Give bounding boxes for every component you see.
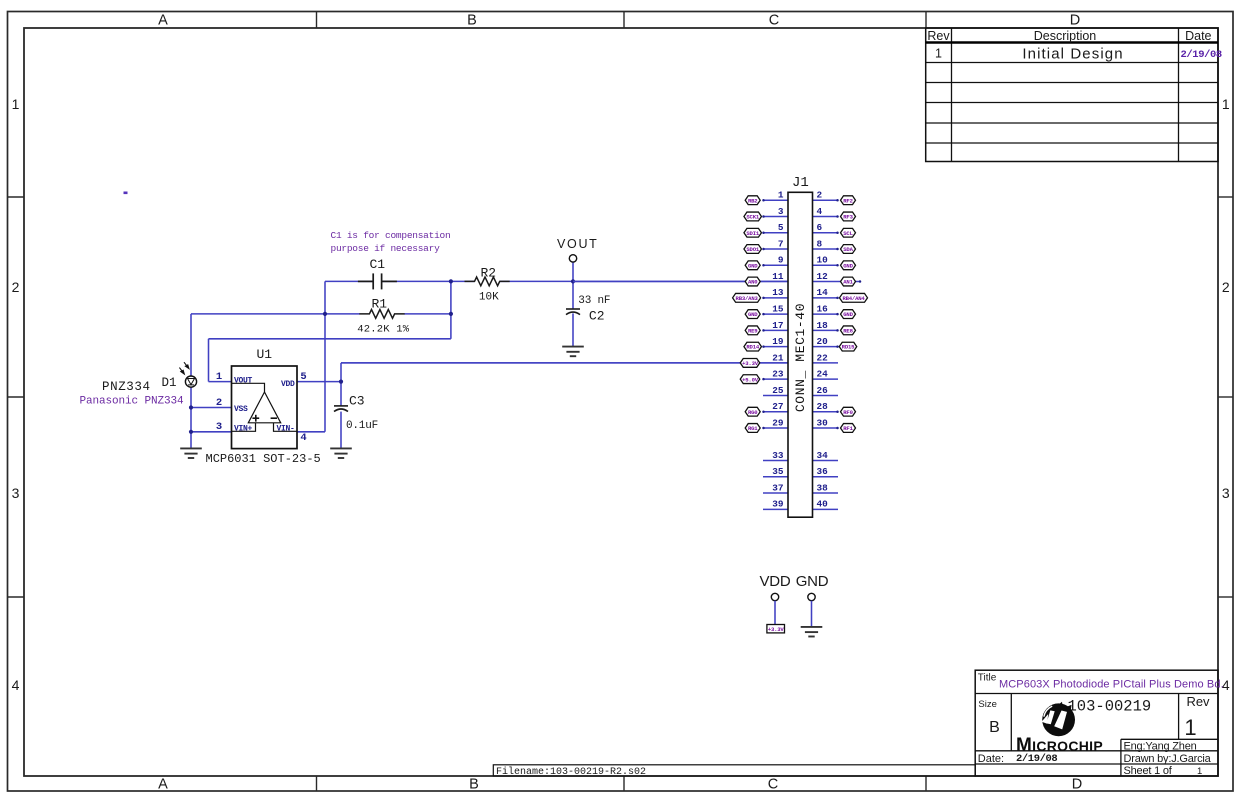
svg-text:0.1uF: 0.1uF [346, 420, 378, 432]
capacitor C2 [566, 309, 580, 315]
svg-text:21: 21 [772, 352, 784, 363]
svg-text:35: 35 [772, 466, 784, 477]
svg-text:A: A [158, 777, 168, 793]
bottom margin column ticks [316, 776, 318, 791]
wire vertical VIN- net x=325 [324, 281, 326, 431]
svg-text:R1: R1 [372, 297, 388, 312]
svg-text:15: 15 [772, 303, 784, 314]
wire J1 pin 16 stub [813, 313, 839, 315]
svg-text:Description: Description [1034, 29, 1097, 43]
svg-text:B: B [467, 13, 477, 29]
svg-text:RB2: RB2 [748, 197, 758, 204]
svg-text:VSS: VSS [234, 405, 248, 414]
svg-text:24: 24 [817, 369, 829, 380]
svg-text:+3.3V: +3.3V [742, 360, 759, 367]
svg-text:2: 2 [817, 190, 823, 201]
svg-text:RG1: RG1 [748, 425, 758, 432]
net label RE9 (J1 pin 17) [745, 326, 760, 335]
filename box [493, 765, 975, 776]
connector J1 body [788, 192, 813, 517]
svg-text:13: 13 [772, 287, 784, 298]
net label GND (J1 pin 10) [841, 261, 856, 270]
GND terminal circle [808, 593, 815, 600]
svg-text:103-00219: 103-00219 [1068, 698, 1152, 716]
resistor R1 [359, 310, 404, 319]
endpoint dot J1 pin 2 [836, 199, 839, 202]
ground under D1 [180, 448, 202, 458]
endpoint dot J1 pin 29 [762, 427, 765, 430]
wire J1 pin 17 stub [763, 329, 788, 331]
wire J1 pin 21 stub [341, 362, 788, 364]
junction dot D1/VIN+ [189, 430, 193, 434]
wire J1 pin 28 stub [813, 411, 839, 413]
junction dot R1 right [449, 312, 453, 316]
wire J1 pin 24 stub [813, 378, 839, 380]
net label +5.0V (J1 pin 23) [740, 375, 760, 384]
endpoint dot J1 pin 10 [836, 264, 839, 267]
ground under C2 [562, 347, 584, 357]
svg-text:33: 33 [772, 450, 784, 461]
wire J1 pin 1 stub [763, 199, 788, 201]
endpoint dot J1 pin 16 [836, 313, 839, 316]
svg-text:PNZ334: PNZ334 [102, 380, 151, 394]
svg-text:6: 6 [817, 222, 823, 233]
net label GND (J1 pin 9) [745, 261, 760, 270]
net label RE8 (J1 pin 18) [841, 326, 856, 335]
svg-text:27: 27 [772, 401, 783, 412]
endpoint dot J1 pin 3 [762, 215, 765, 218]
wire J1 pin 39 stub [763, 508, 788, 510]
svg-text:RF1: RF1 [843, 425, 853, 432]
VDD wire [774, 601, 776, 625]
svg-text:39: 39 [772, 499, 784, 510]
svg-text:12: 12 [817, 271, 829, 282]
wire down to U1 pin 1 [208, 339, 210, 382]
svg-text:3: 3 [1222, 485, 1230, 501]
svg-text:U1: U1 [257, 347, 273, 362]
wire J1 pin 2 stub [813, 199, 839, 201]
wire J1 pin 6 stub [813, 232, 839, 234]
wire VOUT feedback horizontal y=338.8 [209, 338, 451, 340]
svg-text:C: C [769, 13, 779, 29]
svg-text:Rev: Rev [1186, 694, 1210, 709]
endpoint dot J1 pin 6 [836, 231, 839, 234]
svg-text:CONN_ MEC1-40: CONN_ MEC1-40 [793, 303, 808, 412]
net label RF0 (J1 pin 28) [841, 407, 856, 416]
svg-text:10K: 10K [479, 291, 499, 303]
svg-text:MCP6031 SOT-23-5: MCP6031 SOT-23-5 [206, 452, 321, 466]
svg-text:16: 16 [817, 303, 829, 314]
top margin column ticks [316, 12, 318, 29]
junction dot C1/R2 node [449, 279, 453, 283]
endpoint dot J1 pin 1 [762, 199, 765, 202]
net label RD15 (J1 pin 20) [839, 342, 857, 351]
title block title row rule [975, 693, 1218, 695]
svg-text:B: B [469, 777, 479, 793]
svg-text:Rev: Rev [927, 29, 950, 43]
svg-text:AN1: AN1 [843, 279, 853, 286]
wire D1 top to feedback row [190, 314, 192, 377]
revision table row rules [926, 62, 1218, 64]
svg-text:26: 26 [817, 385, 829, 396]
svg-text:RF2: RF2 [843, 197, 853, 204]
svg-text:1: 1 [216, 371, 222, 383]
svg-text:+3.3V: +3.3V [768, 626, 785, 633]
op-amp U1 internal triangle and wiring [232, 383, 298, 431]
op-amp U1 box [232, 366, 298, 449]
endpoint dot J1 pin 13 [762, 297, 765, 300]
wire J1 pin 10 stub [813, 264, 839, 266]
svg-text:10: 10 [817, 255, 829, 266]
wire J1 pin 4 stub [813, 215, 839, 217]
wire feedback right vertical x=450.9 [450, 281, 452, 338]
svg-text:36: 36 [817, 466, 829, 477]
wire R2 to J1 pin 11 (VOUT net) [500, 280, 788, 282]
wire C1 row y=281 left part [325, 280, 373, 282]
svg-text:14: 14 [817, 287, 829, 298]
revision table frame [926, 28, 1218, 162]
title block frame [975, 670, 1218, 776]
junction dot R1 left [323, 312, 327, 316]
VDD +3.3V power box [767, 625, 785, 633]
endpoint dot J1 pin 20 [836, 345, 839, 348]
VDD terminal circle [771, 593, 778, 600]
svg-text:C: C [768, 777, 778, 793]
endpoint dot J1 pin 18 [836, 329, 839, 332]
svg-text:22: 22 [817, 352, 829, 363]
svg-text:SDA: SDA [843, 246, 853, 253]
svg-text:Date: Date [1185, 29, 1211, 43]
svg-text:1: 1 [1222, 96, 1230, 112]
net label RG0 (J1 pin 27) [745, 407, 760, 416]
junction dot VOUT/C2 [571, 279, 575, 283]
svg-text:MCP603X Photodiode PICtail Plu: MCP603X Photodiode PICtail Plus Demo Bd. [999, 679, 1224, 691]
wire feedback row horizontal from D1 to R1C1 left [191, 313, 325, 315]
svg-text:8: 8 [817, 238, 823, 249]
svg-text:29: 29 [772, 417, 784, 428]
svg-text:1: 1 [935, 47, 942, 61]
light arrow 2 into D1 [184, 362, 189, 368]
svg-text:5: 5 [300, 371, 306, 383]
op-amp minus sign [271, 417, 277, 419]
revision table header rule (thick) [926, 41, 1218, 44]
wire J1 pin 40 stub [813, 508, 839, 510]
net label RD14 (J1 pin 19) [744, 342, 762, 351]
svg-text:AN0: AN0 [748, 279, 758, 286]
svg-text:C2: C2 [589, 309, 605, 324]
net label SCK1 (J1 pin 3) [744, 212, 762, 221]
wire C2 bottom lead to ground [572, 313, 574, 346]
wire C1 row to R2 [382, 280, 474, 282]
net label SDI1 (J1 pin 5) [744, 228, 762, 237]
wire C3 bottom lead to ground [340, 412, 342, 449]
svg-text:J1: J1 [792, 175, 809, 191]
GND wire [811, 601, 813, 627]
svg-text:Sheet 1 of: Sheet 1 of [1124, 765, 1173, 777]
svg-text:C3: C3 [349, 394, 365, 409]
svg-text:RD15: RD15 [842, 344, 855, 351]
wire J1 pin 3 stub [763, 215, 788, 217]
net label RG1 (J1 pin 29) [745, 424, 760, 433]
svg-text:9: 9 [778, 255, 784, 266]
wire J1 pin 26 stub [813, 394, 839, 396]
svg-text:40: 40 [817, 499, 829, 510]
svg-text:VOUT: VOUT [234, 376, 253, 385]
svg-text:11: 11 [772, 271, 784, 282]
net label GND (J1 pin 15) [745, 310, 760, 319]
svg-text:3: 3 [778, 206, 784, 217]
VOUT terminal circle [569, 255, 576, 262]
wire VOUT terminal stub [572, 262, 574, 281]
light arrow 1 into D1 [179, 368, 184, 374]
wire J1 pin 36 stub [813, 476, 839, 478]
svg-text:38: 38 [817, 482, 829, 493]
endpoint dot J1 pin 8 [836, 248, 839, 251]
svg-text:Size: Size [978, 699, 996, 710]
wire J1 pin 30 stub [813, 427, 839, 429]
net label SDA (J1 pin 8) [841, 245, 856, 254]
svg-text:D: D [1070, 13, 1080, 29]
svg-text:25: 25 [772, 385, 784, 396]
rev column rule [1178, 694, 1180, 740]
wire U1 pin2 VSS to D1 net [191, 407, 232, 409]
net label +3.3V (J1 pin 21) [740, 359, 760, 368]
wire J1 pin 22 stub [813, 362, 839, 364]
net label SCL (J1 pin 6) [841, 228, 856, 237]
wire J1 pin 29 stub [763, 427, 788, 429]
svg-text:RG0: RG0 [748, 409, 758, 416]
wire C3 top lead [340, 382, 342, 406]
svg-text:SCL: SCL [843, 230, 853, 237]
capacitor C3 [334, 406, 348, 412]
svg-text:VDD: VDD [281, 380, 295, 389]
wire J1 pin 12 stub [813, 281, 861, 283]
svg-text:Drawn by:J.Garcia: Drawn by:J.Garcia [1124, 753, 1212, 765]
op-amp plus sign [252, 415, 259, 422]
svg-text:GND: GND [796, 573, 829, 590]
wire J1 pin 15 stub [763, 313, 788, 315]
wire J1 pin 33 stub [763, 460, 788, 462]
wire J1 pin 23 stub [763, 378, 788, 380]
endpoint dot J1 pin 23 [762, 378, 765, 381]
svg-text:RE8: RE8 [843, 327, 853, 334]
svg-text:1: 1 [778, 190, 784, 201]
revision table column lines [951, 28, 953, 162]
wire J1 pin 13 stub [763, 297, 788, 299]
svg-text:C1: C1 [370, 257, 386, 272]
svg-text:18: 18 [817, 320, 829, 331]
endpoint dot J1 pin 27 [762, 410, 765, 413]
endpoint dot J1 pin 30 [836, 427, 839, 430]
wire J1 pin 27 stub [763, 411, 788, 413]
net label RF3 (J1 pin 4) [841, 212, 856, 221]
svg-text:RB3/AN3: RB3/AN3 [736, 295, 759, 302]
wire J1 pin 18 stub [813, 329, 839, 331]
wire U1 pin1 stub [209, 381, 232, 383]
wire U1 pin4 stub [297, 431, 325, 433]
net label RB4/AN4 (J1 pin 14) [840, 293, 868, 302]
date row rule [975, 750, 1218, 752]
wire +3.3V rail to J1 pin 21 [341, 362, 788, 364]
svg-text:VDD: VDD [760, 573, 791, 590]
wire R1 row right lead [404, 313, 451, 315]
endpoint dot J1 pin 14 [836, 297, 839, 300]
wire J1 pin 5 stub [763, 232, 788, 234]
capacitor C1 [358, 273, 397, 289]
eng box rules [1121, 738, 1218, 740]
wire J1 pin 8 stub [813, 248, 839, 250]
svg-text:3: 3 [216, 421, 222, 433]
wire J1 pin 9 stub [763, 264, 788, 266]
svg-text:4: 4 [817, 206, 823, 217]
svg-text:1: 1 [1197, 766, 1202, 777]
svg-text:30: 30 [817, 417, 829, 428]
endpoint dot J1 pin 28 [836, 410, 839, 413]
photodiode D1 [185, 376, 196, 387]
svg-text:GND: GND [843, 262, 853, 269]
svg-text:C1 is for compensation: C1 is for compensation [331, 230, 451, 241]
svg-text:23: 23 [772, 369, 784, 380]
net label AN1 (J1 pin 12) [841, 277, 856, 286]
svg-text:1: 1 [1184, 715, 1196, 740]
svg-text:RE9: RE9 [748, 327, 758, 334]
endpoint dot J1 pin 4 [836, 215, 839, 218]
left margin row ticks [8, 196, 25, 198]
wire J1 pin 19 stub [763, 346, 788, 348]
net label RB2 (J1 pin 1) [745, 196, 760, 205]
svg-text:34: 34 [817, 450, 829, 461]
svg-text:4: 4 [300, 432, 306, 444]
stray purple dash [124, 192, 128, 195]
wire D1 bottom to ground [190, 386, 192, 448]
net label RB3/AN3 (J1 pin 13) [733, 293, 761, 302]
svg-text:19: 19 [772, 336, 784, 347]
endpoint dot J1 pin 12 [859, 280, 862, 283]
Microchip logo icon [1042, 702, 1075, 736]
wire J1 pin 20 stub [813, 346, 839, 348]
svg-text:D1: D1 [162, 376, 177, 390]
endpoint dot J1 pin 5 [762, 231, 765, 234]
svg-text:purpose if necessary: purpose if necessary [331, 243, 441, 254]
resistor R2 [465, 277, 510, 286]
svg-text:RF3: RF3 [843, 214, 853, 221]
wire R1 row left lead [325, 313, 360, 315]
svg-text:20: 20 [817, 336, 829, 347]
svg-text:5: 5 [778, 222, 784, 233]
wire J1 pin 7 stub [763, 248, 788, 250]
net label AN0 (J1 pin 11) [745, 277, 760, 286]
svg-text:RF0: RF0 [843, 409, 853, 416]
endpoint dot J1 pin 7 [762, 248, 765, 251]
ground symbol bottom [801, 627, 823, 637]
svg-text:Date:: Date: [978, 753, 1004, 765]
net label GND (J1 pin 16) [841, 310, 856, 319]
svg-text:+5.0V: +5.0V [742, 376, 759, 383]
svg-text:B: B [989, 719, 1000, 736]
svg-text:GND: GND [843, 311, 853, 318]
svg-text:Filename:103-00219-R2.s02: Filename:103-00219-R2.s02 [496, 766, 646, 778]
ground under C3 [330, 448, 352, 458]
svg-text:42.2K 1%: 42.2K 1% [357, 323, 410, 335]
svg-text:Initial Design: Initial Design [1022, 45, 1123, 62]
svg-text:Title: Title [978, 673, 997, 684]
svg-text:A: A [158, 13, 168, 29]
svg-text:2/19/08: 2/19/08 [1016, 753, 1057, 765]
right margin row ticks [1218, 196, 1233, 198]
svg-text:1: 1 [12, 96, 20, 112]
svg-text:SDO1: SDO1 [746, 246, 759, 253]
svg-text:2: 2 [1222, 279, 1230, 295]
wire J1 pin 14 stub [813, 297, 839, 299]
wire J1 pin 25 stub [763, 394, 788, 396]
sheet row rule [975, 763, 1218, 765]
svg-text:Panasonic PNZ334: Panasonic PNZ334 [80, 396, 185, 408]
net label SDO1 (J1 pin 7) [744, 245, 762, 254]
svg-text:2/19/08: 2/19/08 [1181, 49, 1222, 61]
svg-text:VIN+: VIN+ [234, 424, 253, 433]
svg-text:GND: GND [748, 262, 758, 269]
wire J1 pin 37 stub [763, 492, 788, 494]
svg-text:37: 37 [772, 482, 783, 493]
endpoint dot J1 pin 17 [762, 329, 765, 332]
endpoint dot J1 pin 15 [762, 313, 765, 316]
net label RF2 (J1 pin 2) [841, 196, 856, 205]
svg-text:17: 17 [772, 320, 783, 331]
svg-text:R2: R2 [481, 265, 497, 280]
svg-text:SCK1: SCK1 [746, 214, 759, 221]
endpoint dot J1 pin 19 [762, 345, 765, 348]
wire J1 pin 38 stub [813, 492, 839, 494]
endpoint dot J1 pin 9 [762, 264, 765, 267]
svg-text:RB4/AN4: RB4/AN4 [842, 295, 865, 302]
svg-text:VOUT: VOUT [557, 237, 599, 251]
svg-text:GND: GND [748, 311, 758, 318]
wire C2 top lead [572, 281, 574, 309]
wire J1 pin 35 stub [763, 476, 788, 478]
svg-text:SDI1: SDI1 [746, 230, 759, 237]
junction dot D1/VSS [189, 405, 193, 409]
size column rule [1010, 694, 1012, 751]
svg-text:2: 2 [216, 397, 222, 409]
wire J1 pin 34 stub [813, 460, 839, 462]
svg-text:4: 4 [12, 677, 20, 693]
junction dot VDD/C3 [339, 380, 343, 384]
svg-text:7: 7 [778, 238, 784, 249]
svg-text:RD14: RD14 [746, 344, 759, 351]
wire U1 pin5 VDD stub to C3 [297, 381, 341, 383]
svg-text:D: D [1072, 777, 1082, 793]
net label RF1 (J1 pin 30) [841, 424, 856, 433]
svg-text:28: 28 [817, 401, 829, 412]
svg-text:33 nF: 33 nF [578, 295, 610, 307]
wire U1 pin3 VIN+ to D1 net [191, 431, 232, 433]
svg-text:VIN-: VIN- [276, 424, 294, 433]
wire +3.3V riser above C3 [340, 363, 342, 382]
svg-text:3: 3 [12, 485, 20, 501]
wire J1 pin 11 stub [573, 281, 788, 283]
svg-text:2: 2 [12, 279, 20, 295]
